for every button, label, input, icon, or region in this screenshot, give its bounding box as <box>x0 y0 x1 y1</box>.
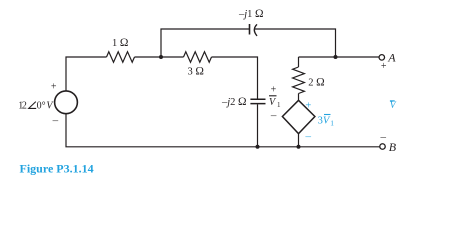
svg-text:3V: 3V <box>318 115 331 126</box>
svg-text:V: V <box>269 97 277 108</box>
svg-text:2 Ω: 2 Ω <box>308 77 324 89</box>
svg-text:3 Ω: 3 Ω <box>188 65 204 77</box>
svg-text:–: – <box>380 131 387 143</box>
svg-text:Figure P3.1.14: Figure P3.1.14 <box>20 162 94 176</box>
svg-text:1 Ω: 1 Ω <box>112 37 128 49</box>
svg-text:1: 1 <box>330 119 334 128</box>
svg-text:1: 1 <box>277 101 281 109</box>
svg-text:12: 12 <box>18 100 27 111</box>
svg-text:+: + <box>381 61 387 72</box>
svg-text:+: + <box>305 100 311 111</box>
svg-text:+: + <box>51 81 57 92</box>
svg-text:–: – <box>305 130 312 142</box>
svg-text:–j2 Ω: –j2 Ω <box>221 96 247 108</box>
svg-text:–: – <box>52 114 59 126</box>
svg-text:V: V <box>390 101 397 111</box>
svg-text:0°: 0° <box>37 101 46 112</box>
svg-text:+: + <box>271 84 277 95</box>
svg-text:–j1 Ω: –j1 Ω <box>238 8 264 20</box>
svg-text:–: – <box>270 110 277 122</box>
svg-text:A: A <box>387 51 396 65</box>
svg-text:V: V <box>46 100 54 111</box>
svg-text:B: B <box>389 140 397 154</box>
